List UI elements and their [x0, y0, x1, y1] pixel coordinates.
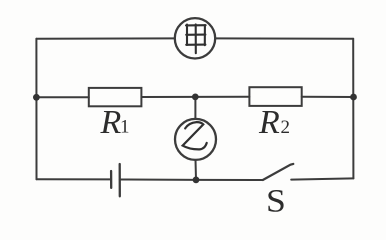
resistor R2 box — [249, 87, 301, 106]
svg-text:1: 1 — [120, 117, 130, 138]
meter Yi (乙) circle — [175, 119, 216, 160]
node dot bottom — [193, 177, 200, 184]
meter Yi (乙) glyph — [183, 122, 207, 149]
node dot right — [350, 94, 357, 101]
svg-text:S: S — [266, 182, 286, 219]
wire center node to R2 — [195, 96, 249, 98]
svg-text:R: R — [258, 104, 280, 141]
wire ammeter branch upper — [194, 97, 196, 119]
wire R1 to center node — [141, 96, 195, 98]
wire top-left horizontal — [36, 37, 175, 39]
node dot center — [192, 94, 199, 101]
switch blade — [263, 164, 294, 180]
node dot left — [33, 94, 40, 101]
resistor R1 box — [89, 88, 142, 106]
wire middle-left: node to R1 — [37, 96, 89, 98]
wire bottom-left to battery — [37, 178, 112, 180]
meter Jia (甲) glyph — [186, 24, 206, 53]
svg-text:2: 2 — [281, 117, 291, 138]
wire right vertical — [352, 39, 354, 179]
wire R2 to right node — [302, 96, 354, 98]
svg-text:R: R — [100, 104, 122, 141]
meter Jia (甲) circle — [175, 18, 215, 58]
battery long plate — [119, 164, 121, 196]
wire bottom node to switch pivot — [196, 179, 263, 181]
wire ammeter branch lower — [195, 160, 198, 180]
wire switch contact to bottom-right corner — [291, 178, 353, 179]
wire top-right horizontal — [215, 37, 353, 39]
battery short plate — [110, 171, 112, 188]
wire battery to bottom center node — [120, 179, 196, 181]
wire left vertical — [35, 39, 37, 180]
